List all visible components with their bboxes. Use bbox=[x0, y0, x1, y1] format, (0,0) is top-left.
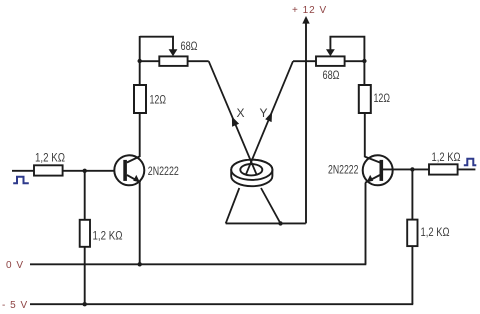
wire: right base pulldown upper bbox=[411, 169, 413, 220]
svg-text:X: X bbox=[237, 106, 245, 120]
resistor 1,2 KΩ (left base pulldown) bbox=[80, 220, 90, 247]
svg-text:68Ω: 68Ω bbox=[181, 39, 198, 53]
node: left pot junction bbox=[138, 59, 142, 63]
node: right base junction bbox=[410, 167, 414, 171]
wire: left pot wiper loop bbox=[140, 37, 173, 51]
svg-text:2N2222: 2N2222 bbox=[328, 163, 359, 177]
wire: 0V rail bbox=[30, 263, 366, 265]
potentiometer 68Ω (right, rheostat body) bbox=[316, 56, 345, 66]
wire: right base pulldown lower to -5V bbox=[411, 246, 413, 304]
svg-text:2N2222: 2N2222 bbox=[148, 164, 179, 178]
wire: Y drive line (diagonal through core) bbox=[246, 61, 293, 174]
node: core bottom junction bbox=[278, 221, 282, 225]
arrow: right pot wiper bbox=[326, 49, 335, 56]
wire: left input lead bbox=[12, 170, 34, 172]
arrow: Y direction bbox=[265, 112, 272, 122]
svg-text:1,2 KΩ: 1,2 KΩ bbox=[432, 150, 461, 164]
wire: core bottom return bbox=[226, 222, 306, 224]
node: left base junction bbox=[83, 169, 87, 173]
input pulse symbol (right, blue square wave) bbox=[464, 159, 477, 165]
wire: left pot output bbox=[188, 60, 209, 62]
wire: left collector upper / pot junction vertical bbox=[139, 36, 141, 85]
wire: core left leg bbox=[226, 188, 240, 223]
transistor Q1 2N2222 (left) bbox=[114, 155, 144, 185]
wire: X drive line (diagonal through core) bbox=[209, 61, 257, 174]
wire: Y top horizontal to right pot bbox=[293, 60, 316, 62]
arrow: X direction bbox=[232, 117, 239, 127]
resistor 1,2 KΩ (left base series) bbox=[34, 165, 63, 175]
arrow: +12V up bbox=[302, 16, 309, 24]
node: junction on -5V rail bbox=[83, 302, 87, 306]
wire: left base pulldown upper bbox=[84, 171, 86, 220]
resistor 12Ω (right collector) bbox=[359, 85, 371, 113]
wire: core right leg bbox=[261, 188, 281, 223]
wire: +12V vertical bbox=[305, 21, 307, 223]
input pulse symbol (left, blue square wave) bbox=[13, 177, 29, 183]
toroidal core bbox=[231, 160, 272, 187]
node: left emitter on 0V rail bbox=[138, 262, 142, 266]
wire: left base bbox=[63, 170, 124, 172]
svg-text:0 V: 0 V bbox=[6, 260, 24, 271]
svg-text:1,2 KΩ: 1,2 KΩ bbox=[93, 229, 123, 243]
svg-text:12Ω: 12Ω bbox=[150, 93, 167, 107]
wire: right pot wiper loop bbox=[330, 37, 364, 85]
resistor 12Ω (left collector) bbox=[134, 85, 146, 113]
svg-text:1,2 KΩ: 1,2 KΩ bbox=[35, 151, 65, 165]
resistor 1,2 KΩ (right base pulldown) bbox=[407, 220, 417, 247]
svg-text:1,2 KΩ: 1,2 KΩ bbox=[421, 225, 450, 239]
svg-text:+ 12 V: + 12 V bbox=[292, 5, 327, 16]
potentiometer 68Ω (left, rheostat body) bbox=[159, 56, 187, 66]
wire: left collector bbox=[139, 113, 141, 157]
wire: left pot feed bbox=[140, 60, 160, 62]
wire: right emitter to 0V bbox=[365, 183, 367, 264]
wire: right input lead bbox=[458, 168, 476, 170]
resistor 1,2 KΩ (right base series) bbox=[429, 164, 458, 174]
wire: right collector bbox=[364, 113, 366, 157]
svg-text:68Ω: 68Ω bbox=[323, 68, 340, 82]
svg-text:12Ω: 12Ω bbox=[374, 91, 391, 105]
node: right pot junction bbox=[362, 59, 366, 63]
svg-text:Y: Y bbox=[260, 106, 268, 120]
transistor Q2 2N2222 (right) bbox=[363, 155, 393, 185]
wire: left emitter to 0V bbox=[139, 183, 141, 264]
arrow: left pot wiper bbox=[169, 49, 178, 56]
wire: right base bbox=[383, 168, 429, 170]
wire: left base pulldown lower to -5V bbox=[84, 247, 86, 305]
svg-text:- 5 V: - 5 V bbox=[2, 300, 28, 311]
wire: -5V rail bbox=[30, 303, 413, 305]
wire: right pot output bbox=[345, 60, 365, 62]
